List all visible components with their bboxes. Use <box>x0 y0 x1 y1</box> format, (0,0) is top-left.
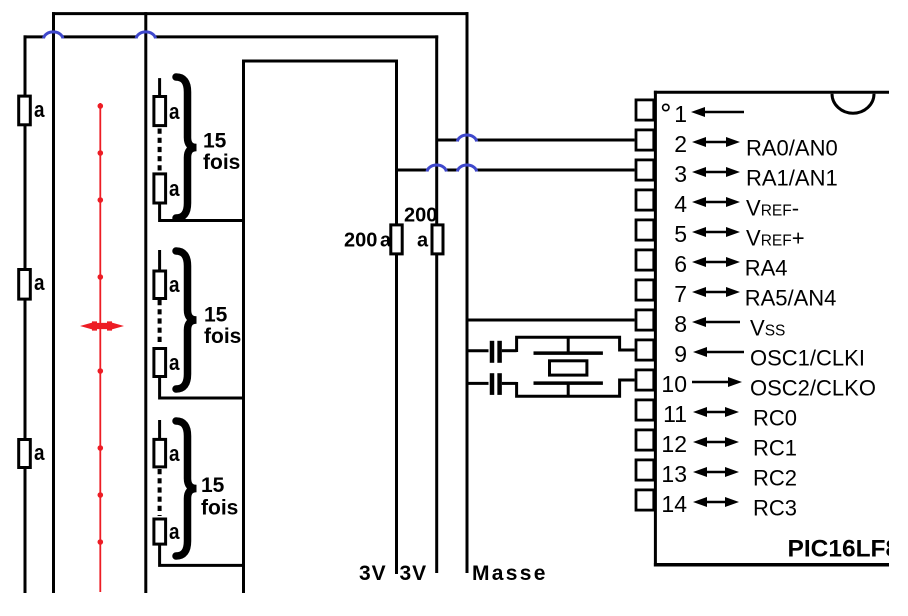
svg-text:fois: fois <box>201 497 238 520</box>
capacitor C1 plates <box>490 341 495 363</box>
svg-text:RA5/AN4: RA5/AN4 <box>745 286 837 311</box>
wire vertical Masse line <box>466 12 469 573</box>
wire pin8 Vss net to Masse line <box>467 319 635 322</box>
resistor left column R1 <box>19 96 31 125</box>
pin 1 box <box>636 100 654 120</box>
red measurement axis line <box>99 103 101 592</box>
group 1 bottom wire <box>160 203 244 221</box>
svg-text:RA0/AN0: RA0/AN0 <box>746 136 838 161</box>
svg-text:fois: fois <box>203 151 240 174</box>
pin 12 arrow <box>693 437 707 447</box>
group 3 dashed link <box>158 469 162 516</box>
red dot 4 <box>98 274 104 280</box>
group 2 brace <box>176 251 197 389</box>
capacitor C2 plates <box>490 373 495 395</box>
svg-text:a: a <box>169 519 180 544</box>
svg-text:2: 2 <box>674 131 687 157</box>
svg-text:15: 15 <box>204 304 228 327</box>
svg-text:RC0: RC0 <box>753 406 797 431</box>
pin 5 box <box>636 220 654 240</box>
pin 4 arrow <box>692 197 706 207</box>
capacitor C2 wires <box>467 382 489 385</box>
hop arc on y=140 over x=467 <box>457 135 476 142</box>
pin 5 arrow <box>692 227 706 237</box>
wire vertical resistor-group bus <box>242 60 245 594</box>
pin 3 box <box>636 160 654 180</box>
pin 8 arrow <box>692 317 706 327</box>
red dot 1 <box>98 103 104 109</box>
svg-text:3: 3 <box>674 161 687 187</box>
red double arrow starburst <box>80 321 124 330</box>
red dot 6 <box>98 445 104 451</box>
IC U1 PIC16LF8 body <box>654 91 889 94</box>
svg-text:RC1: RC1 <box>753 436 797 461</box>
svg-text:15: 15 <box>203 130 227 153</box>
red dot 5 <box>98 368 104 374</box>
svg-text:a: a <box>169 441 180 466</box>
svg-text:a: a <box>169 272 180 297</box>
group 1 dashed link <box>158 129 162 172</box>
svg-text:RA4: RA4 <box>745 256 788 281</box>
resistor 200a (right, on 3V line B) <box>432 225 443 254</box>
pin 2 arrow <box>692 137 706 147</box>
group 3 brace <box>176 421 197 556</box>
svg-text:8: 8 <box>674 311 687 337</box>
svg-text:3V: 3V <box>359 562 387 585</box>
pin 3 arrow <box>692 167 706 177</box>
red dot 7 <box>98 492 104 498</box>
svg-text:14: 14 <box>661 491 687 517</box>
svg-text:RC3: RC3 <box>753 496 797 521</box>
pin 10 arrow <box>728 377 742 387</box>
svg-text:a: a <box>34 97 45 122</box>
oscillator loop bottom branch to pin10 <box>517 380 635 396</box>
pin 14 arrow <box>693 497 707 507</box>
svg-text:RC2: RC2 <box>753 466 797 491</box>
group 2 bottom wire <box>160 376 244 398</box>
svg-text:15: 15 <box>201 474 225 497</box>
svg-text:1: 1 <box>674 101 687 127</box>
pin 10 box <box>636 370 654 390</box>
pin 9 arrow <box>693 347 707 357</box>
wire vertical 3V line A <box>395 60 398 575</box>
wire third bus y=61 <box>242 60 398 63</box>
pin 8 box <box>636 310 654 330</box>
group 2 stub wire <box>158 250 161 271</box>
group 2 resistor a (top) <box>154 271 166 299</box>
svg-text:a: a <box>34 270 45 295</box>
svg-text:9: 9 <box>674 341 687 367</box>
group 3 stub wire <box>158 420 161 439</box>
group 3 resistor a (bottom) <box>154 519 166 544</box>
oscillator loop top branch to pin9 <box>517 337 635 352</box>
group 3 resistor a (top) <box>154 439 166 467</box>
hop arc on y=37 over x=53.5 <box>44 32 63 39</box>
group 1 brace <box>176 77 197 218</box>
group 2 dashed link <box>158 300 162 346</box>
group 3 bottom wire <box>160 544 244 565</box>
svg-text:Masse: Masse <box>472 562 548 585</box>
hop arc on y=170 over x=436.7 <box>427 165 446 172</box>
wire vertical 3V line B <box>435 35 438 573</box>
svg-text:a: a <box>169 99 180 124</box>
pin 6 box <box>636 250 654 270</box>
svg-text:a: a <box>417 230 429 252</box>
svg-text:OSC2/CLKO: OSC2/CLKO <box>750 376 876 401</box>
svg-text:a: a <box>380 230 392 252</box>
svg-text:a: a <box>169 350 180 375</box>
crystal top stub <box>567 337 570 353</box>
resistor left column R3 <box>19 440 31 468</box>
svg-text:3V: 3V <box>400 562 428 585</box>
svg-text:7: 7 <box>674 281 687 307</box>
pin 7 box <box>636 280 654 300</box>
wire vertical left column <box>24 35 27 593</box>
svg-text:13: 13 <box>661 461 687 487</box>
pin 11 arrow <box>693 407 707 417</box>
group 1 stub wire <box>158 78 161 96</box>
pin 14 box <box>636 490 654 510</box>
svg-text:PIC16LF8: PIC16LF8 <box>788 536 900 563</box>
resistor left column R2 <box>19 270 31 300</box>
hop arc on y=170 over x=467 <box>457 165 476 172</box>
crystal bottom stub <box>567 383 570 396</box>
svg-text:200: 200 <box>404 205 437 227</box>
group 1 resistor a (top) <box>154 97 166 126</box>
group 2 resistor a (bottom) <box>154 349 166 377</box>
crystal top electrode plate <box>534 351 603 355</box>
svg-text:4: 4 <box>674 191 687 217</box>
pin 1 arrow <box>691 107 705 117</box>
wire vertical second column <box>52 12 55 593</box>
svg-text:a: a <box>34 440 45 465</box>
pin 9 box <box>636 340 654 360</box>
red dot 3 <box>98 197 104 203</box>
pin 1 index marker <box>663 104 669 110</box>
pin 12 box <box>636 430 654 450</box>
crystal bottom electrode plate <box>534 381 603 385</box>
red dot 2 <box>98 150 104 156</box>
svg-text:RA1/AN1: RA1/AN1 <box>746 166 838 191</box>
group 1 resistor a (bottom) <box>154 174 166 203</box>
wire pin3 net y=170 with hop gaps <box>397 169 427 172</box>
svg-text:fois: fois <box>204 325 241 348</box>
red dot 8 <box>98 539 104 545</box>
hop arc on y=37 over x=145.8 <box>136 32 155 39</box>
pin 11 box <box>636 400 654 420</box>
pin 2 box <box>636 130 654 150</box>
svg-text:12: 12 <box>661 431 687 457</box>
svg-text:200: 200 <box>344 230 377 252</box>
resistor 200a (left, on 3V line A) <box>391 225 402 254</box>
svg-text:a: a <box>169 176 180 201</box>
crystal body Q1 <box>550 361 587 375</box>
wire second bus y=37 with hop gaps <box>24 35 44 38</box>
svg-text:11: 11 <box>663 401 687 427</box>
pin 7 arrow <box>692 287 706 297</box>
wire pin2 net y=140 with hop gap <box>437 139 457 142</box>
IC notch <box>832 94 874 114</box>
svg-text:10: 10 <box>661 371 687 397</box>
pin 13 arrow <box>693 467 707 477</box>
wire top bus (3V rail to Masse line) <box>52 12 469 15</box>
svg-text:6: 6 <box>674 251 687 277</box>
capacitor C1 wires <box>467 349 489 352</box>
pin 4 box <box>636 190 654 210</box>
svg-text:5: 5 <box>674 221 687 247</box>
svg-text:OSC1/CLKI: OSC1/CLKI <box>750 346 865 371</box>
wire vertical third column <box>144 12 147 593</box>
pin 13 box <box>636 460 654 480</box>
pin 6 arrow <box>692 257 706 267</box>
